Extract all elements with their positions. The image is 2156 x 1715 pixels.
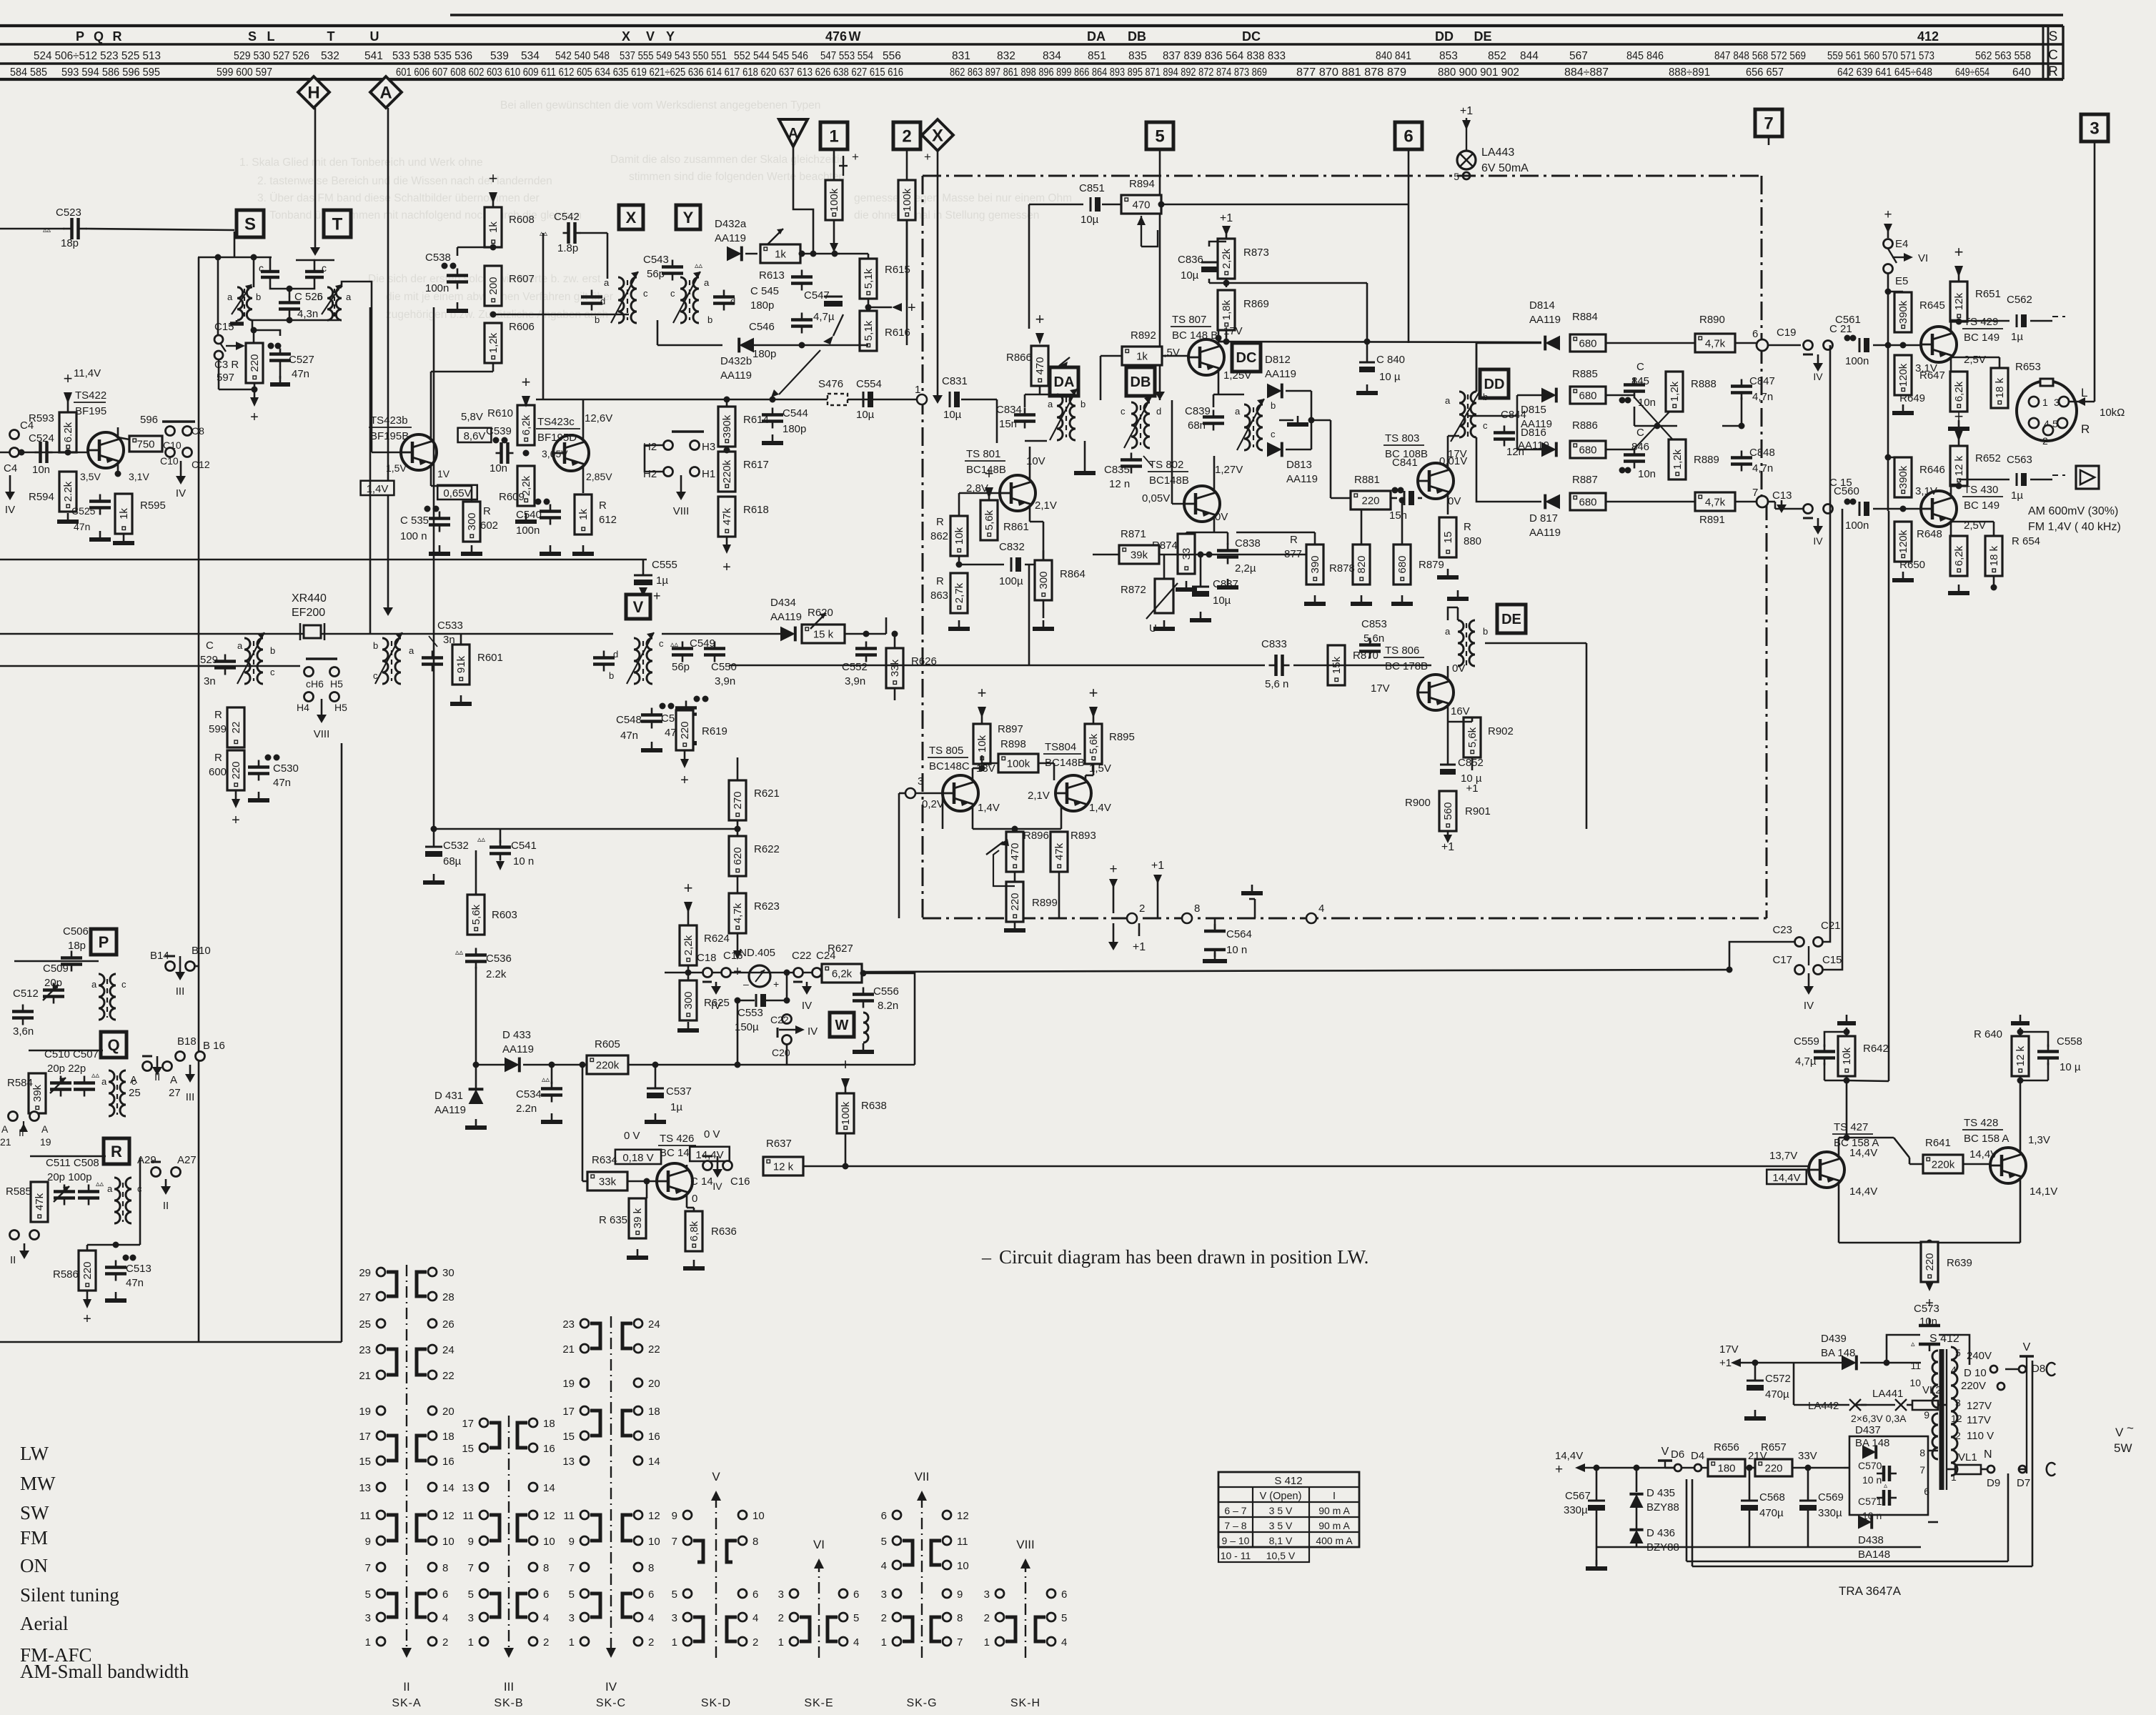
svg-text:470µ: 470µ (1765, 1388, 1789, 1401)
svg-text:C512: C512 (13, 988, 39, 1000)
svg-text:d: d (730, 296, 735, 307)
transistor TS429 (1921, 327, 1957, 362)
resistor R871 (1119, 545, 1159, 564)
resistor R618 (718, 497, 735, 537)
capacitor c S (261, 270, 279, 274)
svg-text:270: 270 (732, 791, 744, 809)
wire emitters (972, 806, 974, 829)
svg-text:100k: 100k (1007, 758, 1030, 770)
svg-text:18: 18 (543, 1418, 555, 1430)
svg-text:10n: 10n (1919, 1316, 1937, 1328)
svg-text:6: 6 (881, 1510, 887, 1522)
svg-text:8: 8 (957, 1612, 963, 1624)
capacitor C554 (863, 392, 865, 407)
svg-text:R885: R885 (1572, 368, 1598, 380)
svg-text:C838: C838 (1235, 537, 1261, 550)
svg-text:X: X (626, 209, 637, 227)
svg-text:863: 863 (930, 590, 948, 602)
svg-text:39k: 39k (31, 1084, 44, 1102)
svg-text:100k: 100k (901, 188, 913, 212)
svg-text:H3: H3 (702, 441, 715, 453)
svg-text:330µ: 330µ (1564, 1504, 1588, 1516)
svg-text:390: 390 (1309, 555, 1321, 573)
wire to R613 (745, 253, 757, 255)
svg-text:846: 846 (1631, 441, 1649, 453)
svg-text:9: 9 (468, 1536, 474, 1548)
svg-text:470: 470 (1034, 357, 1046, 374)
svg-text:2: 2 (881, 1612, 887, 1624)
svg-text:12 k: 12 k (1953, 455, 1965, 476)
svg-text:C834: C834 (996, 404, 1022, 416)
svg-text:17: 17 (562, 1406, 575, 1418)
wire TS805 base R896 (942, 793, 944, 829)
svg-text:R861: R861 (1003, 521, 1029, 533)
svg-text:5: 5 (1155, 127, 1164, 146)
svg-text:Aerial: Aerial (20, 1613, 68, 1634)
svg-text:a: a (227, 292, 233, 302)
svg-text:21: 21 (0, 1136, 11, 1148)
svg-text:III: III (176, 985, 185, 998)
diode D813 (1267, 442, 1282, 457)
svg-text:C: C (1636, 361, 1644, 373)
resistor R896 (1006, 832, 1023, 872)
svg-text:4: 4 (1951, 1364, 1957, 1376)
svg-text:412: 412 (1917, 29, 1939, 44)
svg-text:b: b (595, 314, 600, 325)
svg-text:R897: R897 (998, 723, 1023, 735)
svg-text:6V 50mA: 6V 50mA (1481, 162, 1529, 174)
svg-text:1: 1 (881, 1636, 887, 1649)
svg-text:R645: R645 (1919, 299, 1945, 312)
svg-text:R603: R603 (492, 909, 517, 921)
svg-text:5W: 5W (2114, 1441, 2132, 1455)
transistor TS423c (553, 435, 589, 471)
svg-text:C537: C537 (666, 1085, 692, 1098)
svg-text:11: 11 (462, 1510, 474, 1522)
wire R621 top from V line (685, 757, 737, 758)
svg-text:R595: R595 (140, 499, 166, 512)
svg-text:R864: R864 (1060, 568, 1086, 580)
svg-text:SK-G: SK-G (906, 1697, 937, 1709)
svg-text:542 540 548: 542 540 548 (555, 50, 610, 62)
svg-text:5: 5 (468, 1589, 474, 1601)
svg-text:DE: DE (1501, 612, 1521, 627)
wire H stem (314, 108, 317, 249)
svg-text:47k: 47k (1053, 842, 1065, 860)
wire AFC long y1359 (862, 970, 1729, 972)
wire Q top (29, 1050, 103, 1052)
svg-text:C559: C559 (1794, 1035, 1819, 1048)
svg-text:c: c (1483, 420, 1488, 431)
svg-text:DA: DA (1087, 29, 1106, 44)
svg-text:D9: D9 (1987, 1477, 2000, 1489)
svg-text:R618: R618 (743, 504, 769, 516)
svg-text:IV: IV (605, 1680, 617, 1694)
svg-text:2: 2 (543, 1636, 549, 1649)
plus R600 (235, 790, 237, 799)
wire X stem (937, 151, 939, 397)
svg-text:B 16: B 16 (203, 1040, 225, 1052)
svg-text:12k: 12k (1953, 292, 1965, 310)
svg-text:R888: R888 (1691, 378, 1717, 390)
svg-text:6: 6 (1061, 1589, 1067, 1601)
switch A29 A27 (151, 1168, 161, 1177)
svg-text:13,7V: 13,7V (1769, 1150, 1797, 1162)
svg-text:d: d (600, 296, 605, 307)
svg-text:656 657: 656 657 (1746, 66, 1784, 79)
diode D434 (780, 627, 795, 642)
capacitor d V (593, 656, 615, 660)
svg-text:3,5V: 3,5V (80, 471, 101, 482)
svg-text:0,05V: 0,05V (1142, 492, 1170, 504)
svg-text:+: + (1954, 243, 1964, 261)
svg-text:6: 6 (752, 1589, 758, 1601)
svg-text:220: 220 (1009, 893, 1021, 910)
svg-text:100k: 100k (840, 1101, 852, 1125)
gnd R642 (1846, 1015, 1848, 1023)
svg-text:gemessen gegen Masse bei nur e: gemessen gegen Masse bei nur einem Ohm (854, 192, 1072, 204)
dash-dot vertical at C19/C13 (1761, 345, 1763, 502)
wire C15 down (217, 257, 219, 335)
svg-text:529: 529 (200, 654, 218, 666)
svg-text:14: 14 (543, 1482, 555, 1494)
svg-text:FM 1,4V ( 40 kHz): FM 1,4V ( 40 kHz) (2028, 521, 2121, 533)
svg-text:Bei allen gewünschten die vom: Bei allen gewünschten die vom Werksdiens… (500, 99, 820, 111)
svg-text:28: 28 (442, 1291, 454, 1303)
svg-text:C540: C540 (516, 509, 542, 521)
capacitor C562 (2016, 314, 2018, 327)
svg-text:AM-Small bandwidth: AM-Small bandwidth (20, 1661, 189, 1682)
svg-text:R621: R621 (754, 787, 780, 800)
svg-text:300: 300 (1038, 571, 1050, 589)
wire FM line left (0, 452, 88, 454)
svg-text:V: V (1661, 1446, 1669, 1458)
svg-text:II: II (163, 1200, 169, 1212)
coil C556 (863, 1013, 868, 1043)
wire D812/D813 join (1286, 390, 1311, 392)
svg-text:24: 24 (648, 1318, 660, 1331)
node 1 (917, 394, 927, 404)
capacitor C851 (1090, 197, 1092, 212)
svg-text:+: + (64, 369, 73, 387)
svg-text:17V: 17V (1719, 1343, 1739, 1356)
diode D432b (739, 338, 754, 353)
svg-text:C524: C524 (29, 432, 54, 444)
switch B14 B10 (166, 962, 175, 971)
svg-text:Y: Y (666, 29, 675, 44)
transistor TS806 (1418, 675, 1454, 710)
svg-text:R646: R646 (1919, 464, 1945, 476)
svg-text:AA119: AA119 (720, 369, 752, 382)
wire y286 R894 line (1102, 204, 1409, 206)
capacitor C550 (704, 647, 725, 650)
svg-text:R623: R623 (754, 900, 780, 913)
svg-text:3: 3 (2054, 397, 2060, 408)
capacitor C848 (1731, 456, 1752, 459)
svg-text:220: 220 (81, 1261, 94, 1279)
resistor R622 (729, 836, 746, 876)
svg-text:C527: C527 (289, 354, 314, 366)
wire H left (645, 445, 663, 472)
wire T a out (342, 282, 357, 287)
svg-text:stimmen sind die folgenden Wer: stimmen sind die folgenden Werte beachte… (629, 171, 845, 183)
svg-text:4,7k: 4,7k (1705, 338, 1726, 350)
svg-text:100n: 100n (516, 525, 540, 537)
wire T top (296, 259, 334, 262)
svg-text:6,2k: 6,2k (520, 414, 532, 435)
switch II bottom left (10, 1231, 19, 1240)
svg-text:847 848 568 572 569: 847 848 568 572 569 (1714, 50, 1806, 62)
node 7 (1757, 496, 1768, 507)
svg-text:6 – 7: 6 – 7 (1224, 1505, 1246, 1516)
svg-text:220: 220 (1924, 1253, 1936, 1271)
svg-text:10n: 10n (1638, 397, 1656, 409)
wire DE right to TS430 path (1485, 642, 1586, 645)
resistor R877 (1306, 545, 1323, 585)
diode D433 (505, 1058, 520, 1073)
switch column SK-E (790, 1589, 798, 1598)
svg-text:D 435: D 435 (1646, 1487, 1675, 1499)
svg-text:C19: C19 (1777, 327, 1797, 339)
resistor R623 (729, 893, 746, 933)
wire TS429 emitter (1950, 357, 1952, 372)
svg-text:8: 8 (442, 1562, 448, 1574)
resistor R887 (1570, 493, 1606, 510)
DA can (1039, 386, 1041, 394)
svg-text:SK-B: SK-B (494, 1697, 523, 1709)
svg-text:BC 178B: BC 178B (1385, 660, 1428, 672)
svg-text:C18: C18 (697, 952, 717, 964)
svg-text:47k: 47k (721, 507, 733, 525)
wire R606-line (493, 314, 629, 316)
svg-text:R586: R586 (53, 1268, 79, 1281)
svg-text:D 433: D 433 (502, 1029, 531, 1041)
capacitor C844 (1494, 431, 1515, 434)
diode D815 (1541, 388, 1556, 403)
gnd R612 (582, 545, 585, 554)
svg-text:C22: C22 (792, 950, 812, 962)
svg-text:18p: 18p (68, 940, 86, 952)
plus C555 (639, 587, 647, 597)
resistor R617 (718, 452, 735, 492)
capacitor C536 (465, 953, 487, 957)
svg-text:S 412: S 412 (1929, 1333, 1959, 1345)
svg-text:R651: R651 (1975, 288, 2001, 300)
svg-text:12,6V: 12,6V (585, 412, 612, 424)
wire R605 right (628, 1064, 915, 1066)
svg-text:15: 15 (1442, 532, 1454, 544)
svg-text:C4: C4 (4, 462, 17, 474)
svg-text:R: R (936, 575, 944, 587)
svg-text:11,4V: 11,4V (74, 367, 101, 379)
capacitor C543 (662, 265, 683, 269)
below rail marks (1113, 923, 1115, 943)
svg-text:1,4V: 1,4V (978, 802, 1000, 814)
capacitor C838 (1217, 549, 1238, 552)
capacitor C833 (1274, 655, 1278, 676)
svg-text:877: 877 (1284, 548, 1302, 560)
svg-text:c: c (373, 670, 378, 681)
svg-text:VI: VI (1918, 252, 1928, 264)
svg-text:C837: C837 (1213, 578, 1238, 590)
svg-text:VI: VI (813, 1538, 825, 1551)
wire 5 stem down (1159, 394, 1161, 400)
svg-text:5,6n: 5,6n (1363, 632, 1384, 645)
resistor R641 (1923, 1155, 1963, 1173)
svg-text:R610: R610 (487, 407, 513, 419)
plus R619 (684, 750, 686, 759)
svg-text:220k: 220k (721, 459, 733, 483)
svg-text:15n: 15n (999, 418, 1017, 430)
svg-text:A: A (1, 1123, 9, 1135)
svg-text:10: 10 (442, 1536, 454, 1548)
svg-text:H1: H1 (702, 468, 715, 480)
svg-text:400 m A: 400 m A (1316, 1535, 1353, 1546)
resistor R602 300 (463, 502, 480, 542)
resistor R862 (950, 516, 968, 556)
svg-text:1,2k: 1,2k (1669, 381, 1681, 402)
resistor R861 (980, 500, 998, 540)
svg-text:R584: R584 (7, 1077, 33, 1089)
svg-text:C853: C853 (1361, 618, 1387, 630)
svg-text:853: 853 (1439, 50, 1458, 62)
resistor R884 (1570, 334, 1606, 352)
svg-text:c: c (270, 667, 275, 677)
resistor R638 (837, 1093, 854, 1133)
svg-text:+: + (852, 150, 859, 164)
wire TS802 collector (1213, 456, 1216, 491)
svg-text:Damit die also zusammen der Sk: Damit die also zusammen der Skala gleich… (610, 154, 845, 166)
svg-text:T: T (327, 29, 335, 44)
capacitor C573 (1919, 1324, 1940, 1328)
svg-text:10n: 10n (32, 464, 50, 476)
svg-text:a: a (1048, 399, 1053, 409)
meter IND405 (749, 965, 770, 987)
wire 5 stem (1159, 149, 1161, 393)
speaker symbol (2076, 466, 2099, 489)
svg-text:642 639 641 645÷648: 642 639 641 645÷648 (1837, 66, 1932, 79)
svg-text:+: + (908, 300, 916, 316)
transistor TS428 (1990, 1148, 2026, 1183)
svg-text:a: a (1445, 626, 1451, 637)
svg-text:D4: D4 (1691, 1450, 1704, 1462)
svg-text:680: 680 (1396, 555, 1409, 573)
resistor R891 (1695, 492, 1735, 511)
svg-text:R649: R649 (1899, 392, 1925, 404)
wire R878 R879 tops (1361, 500, 1363, 545)
svg-text:26: 26 (442, 1318, 454, 1331)
plus C541 (496, 861, 505, 870)
svg-text:TS 807: TS 807 (1172, 314, 1206, 326)
svg-text:C16: C16 (730, 1175, 750, 1188)
svg-text:10µ: 10µ (1081, 214, 1099, 226)
svg-text:+: + (489, 169, 498, 187)
wire TS802 emitter (1213, 517, 1216, 532)
jacks C23 C21 C17 C15 (1795, 938, 1804, 947)
wire DIN L (2068, 401, 2095, 403)
resistor R881 (1351, 491, 1391, 509)
wire line y783 (0, 559, 647, 561)
svg-text:240V: 240V (1967, 1350, 1992, 1362)
svg-text:C23: C23 (1772, 924, 1792, 936)
wire TS802 base (1172, 503, 1184, 505)
svg-text:+: + (924, 150, 931, 164)
svg-text:2,2µ: 2,2µ (1235, 562, 1256, 575)
capacitor C542 (567, 222, 570, 244)
pot arrow R613 (767, 229, 783, 244)
svg-text:+1: +1 (1460, 105, 1473, 117)
wire S coil b (252, 257, 253, 287)
svg-text:560: 560 (1442, 802, 1454, 820)
svg-text:12 k: 12 k (2015, 1045, 2027, 1066)
tuner box outline (0, 1341, 342, 1343)
svg-text:10: 10 (957, 1560, 969, 1572)
svg-text:547 553 554: 547 553 554 (820, 50, 873, 62)
svg-text:12: 12 (442, 1510, 454, 1522)
svg-text:2.2k: 2.2k (486, 968, 507, 980)
svg-text:C563: C563 (2007, 454, 2032, 466)
svg-text:AA119: AA119 (1529, 314, 1561, 326)
wire R614 (726, 399, 728, 407)
svg-text:14,1V: 14,1V (2030, 1185, 2057, 1198)
svg-text:220V: 220V (1961, 1380, 1986, 1392)
svg-text:C10: C10 (160, 455, 179, 467)
diodes D435 D436 (1629, 1494, 1643, 1508)
svg-text:2,85V: 2,85V (586, 471, 612, 482)
svg-text:1,5V: 1,5V (386, 462, 407, 474)
svg-text:22: 22 (648, 1343, 660, 1356)
wire R871 (1093, 554, 1119, 556)
svg-text:16: 16 (442, 1456, 454, 1468)
diode D432a (727, 247, 742, 262)
svg-text:W: W (835, 1018, 849, 1033)
capacitor C840 (1359, 362, 1375, 364)
svg-text:C548: C548 (616, 714, 642, 726)
svg-text:68n: 68n (1188, 419, 1206, 432)
svg-text:IV: IV (802, 1000, 812, 1012)
svg-text:529 530 527 526: 529 530 527 526 (234, 50, 309, 62)
svg-text:2: 2 (2042, 435, 2048, 447)
svg-text:▵▵: ▵▵ (455, 948, 464, 957)
svg-text:D 431: D 431 (434, 1090, 463, 1102)
svg-text:R: R (599, 499, 607, 512)
svg-text:533 538 535 536: 533 538 535 536 (392, 50, 472, 62)
svg-text:20: 20 (648, 1378, 660, 1390)
svg-text:532: 532 (321, 50, 339, 62)
capacitor d Y (713, 295, 735, 299)
svg-text:R608: R608 (509, 214, 535, 226)
gnd DC mid (1279, 419, 1293, 422)
svg-text:3: 3 (1955, 1397, 1961, 1408)
capacitor C545 (791, 275, 813, 279)
connector box Y (676, 205, 700, 229)
svg-text:1: 1 (569, 1636, 575, 1649)
svg-text:120k: 120k (1897, 530, 1909, 553)
svg-text:C561: C561 (1835, 314, 1861, 326)
bridge D437 D438 (1849, 1436, 1928, 1515)
svg-text:537 555 549 543 550 551: 537 555 549 543 550 551 (620, 50, 727, 62)
svg-text:BC148C: BC148C (929, 760, 970, 772)
svg-text:5: 5 (672, 1589, 677, 1601)
lamp LA443 (1466, 118, 1467, 151)
svg-text:D439: D439 (1821, 1333, 1847, 1345)
svg-text:390k: 390k (1897, 300, 1909, 324)
svg-text:C570: C570 (1858, 1460, 1882, 1471)
resistor R650 (1950, 536, 1967, 576)
transistor TS426 (657, 1163, 692, 1199)
resistor R898 (998, 754, 1038, 772)
svg-text:47n: 47n (292, 368, 309, 380)
